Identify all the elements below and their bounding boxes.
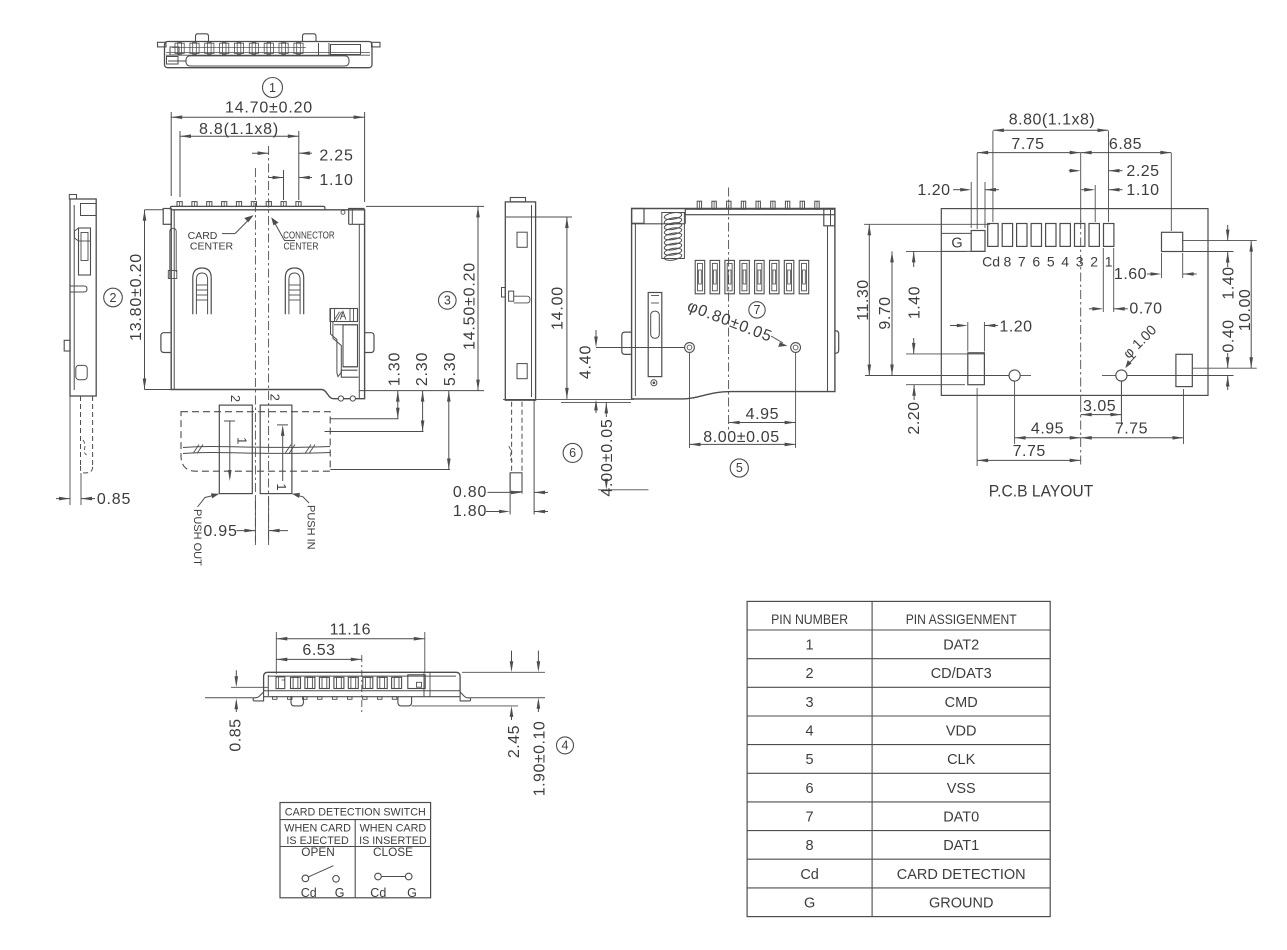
bottom view base line right xyxy=(471,697,546,699)
dim 2.45 xyxy=(511,651,513,669)
bottom view inner right block xyxy=(408,675,425,689)
svg-text:3: 3 xyxy=(444,294,451,308)
dim 3.05 xyxy=(1120,381,1122,421)
dim 2.45 ext xyxy=(412,705,518,707)
svg-text:Cd: Cd xyxy=(370,886,386,900)
dim 8.00 ext line xyxy=(689,353,691,449)
dim 1.10 ext line (pcb) xyxy=(1094,185,1096,222)
dim 1.10 (pcb) xyxy=(1081,189,1092,191)
dim 0.85 (bottom view) xyxy=(231,686,268,688)
svg-text:0.85: 0.85 xyxy=(228,718,245,751)
dim 11.30 xyxy=(868,224,870,375)
front view body outline xyxy=(171,210,364,399)
dim 1.20 lower-left ext lines xyxy=(967,322,969,352)
side view 2 mid hook xyxy=(70,286,87,292)
svg-text:2.25: 2.25 xyxy=(1126,163,1159,180)
cd switch close symbol xyxy=(375,873,382,880)
dim 1.20 top-left ext lines xyxy=(970,182,972,228)
svg-text:6.53: 6.53 xyxy=(302,642,335,659)
dim 0.85 (side view 2) xyxy=(56,498,70,500)
svg-text:4: 4 xyxy=(806,724,814,740)
label CONNECTOR CENTER leader xyxy=(273,219,285,241)
dim 8.00 xyxy=(690,443,796,445)
cd switch table frame xyxy=(280,803,431,898)
dim 6.85 xyxy=(1081,152,1172,154)
view1 contact pins row xyxy=(175,43,184,53)
svg-text:0.85: 0.85 xyxy=(97,491,131,508)
view5 top strip xyxy=(685,209,835,215)
svg-text:6.85: 6.85 xyxy=(1109,136,1142,153)
pcb upper right pad xyxy=(1162,232,1183,251)
dim 7.75 right xyxy=(1081,437,1184,439)
dim 8.80 xyxy=(993,129,1109,131)
dim 7.75 bottom ext xyxy=(976,388,978,466)
svg-text:PUSH OUT: PUSH OUT xyxy=(191,509,203,566)
dim 1.80 (view6) xyxy=(486,511,507,513)
pcb hole left xyxy=(1009,370,1020,381)
dim 6.53 xyxy=(276,658,362,660)
svg-text:CD/DAT3: CD/DAT3 xyxy=(931,666,992,682)
svg-text:8: 8 xyxy=(1004,254,1012,270)
front view right inner wall xyxy=(358,224,360,398)
svg-text:PUSH IN: PUSH IN xyxy=(305,505,317,550)
dim 1.10 xyxy=(269,177,284,179)
bottom view base line left xyxy=(205,697,253,699)
ext line bottoms of views 5/6 xyxy=(503,398,634,400)
dim 4.95 (pcb) xyxy=(1015,437,1081,439)
dim 5.30 xyxy=(448,391,450,470)
svg-text:GROUND: GROUND xyxy=(929,895,993,911)
dim 8.80 ext lines xyxy=(992,131,994,222)
dim 4.00 xyxy=(605,402,607,417)
dim 1.20 lower-left xyxy=(950,325,965,327)
ext line body bottom reference xyxy=(359,390,484,392)
svg-text:1.40: 1.40 xyxy=(906,286,923,319)
bottom view body outline xyxy=(264,672,461,692)
bottom view inner lines xyxy=(267,675,269,696)
svg-text:1.20: 1.20 xyxy=(917,182,950,199)
pcb outline xyxy=(941,209,1208,396)
pcb hole right xyxy=(1116,370,1127,381)
svg-text:4: 4 xyxy=(562,739,569,753)
dim 0.85 ext lines (side view 2) xyxy=(69,396,71,505)
svg-text:3: 3 xyxy=(806,695,814,711)
svg-text:2.45: 2.45 xyxy=(506,725,523,758)
front view left ear xyxy=(161,333,171,353)
center ext line (pcb top) xyxy=(1080,153,1082,222)
svg-text:1: 1 xyxy=(806,638,814,654)
svg-text:CENTER: CENTER xyxy=(284,240,319,252)
dim 7.75 top xyxy=(977,152,1080,154)
bottom view top ext right xyxy=(462,671,545,673)
dim 14.70 xyxy=(171,116,364,118)
pin table frame xyxy=(747,601,1050,916)
svg-text:5.30: 5.30 xyxy=(442,352,459,386)
front view left latch detail xyxy=(170,228,176,278)
svg-text:VDD: VDD xyxy=(946,724,977,740)
dim 0.40 xyxy=(1226,357,1230,368)
view1 inner bottom cavity xyxy=(186,56,349,66)
svg-text:7: 7 xyxy=(806,809,814,825)
svg-text:1.80: 1.80 xyxy=(453,503,487,520)
dim 0.95 xyxy=(237,530,256,532)
svg-text:5: 5 xyxy=(806,752,814,768)
dim 7.75 ext line xyxy=(976,153,978,229)
ref line 1.30 xyxy=(330,418,398,420)
bottom view feet ticks xyxy=(273,697,278,700)
view5 contact slots xyxy=(695,260,705,293)
dim 14.50 xyxy=(477,206,479,390)
pcb lower right pad xyxy=(1176,354,1192,386)
dim 0.40 ext lines xyxy=(1192,367,1256,369)
svg-text:DAT1: DAT1 xyxy=(943,838,979,854)
dim 1.40 left xyxy=(906,250,966,252)
svg-text:0.40: 0.40 xyxy=(1221,319,1238,352)
view5 top-left bracket xyxy=(632,209,644,224)
front view left inner wall xyxy=(173,210,175,390)
front view right ear xyxy=(365,333,374,353)
svg-text:6: 6 xyxy=(806,781,814,797)
front view clip right xyxy=(285,268,303,314)
front view eject lever mechanism xyxy=(330,309,358,322)
side view 6 push rod xyxy=(511,402,513,471)
svg-text:1.10: 1.10 xyxy=(1126,182,1159,199)
view5 hole center line xyxy=(596,347,685,349)
side view 6 lower slot xyxy=(517,364,527,379)
dim 10.00 xyxy=(1250,241,1252,369)
view1 top bump left xyxy=(196,34,209,42)
balloon 7 xyxy=(749,302,765,318)
dim 2.25 xyxy=(252,152,269,154)
bottom view center line xyxy=(361,655,363,715)
svg-text:G: G xyxy=(804,895,815,911)
svg-text:DAT0: DAT0 xyxy=(943,809,979,825)
card center line xyxy=(254,168,256,542)
view5 spring coil xyxy=(664,211,682,220)
ref line 5.30 xyxy=(330,469,450,471)
front view top strip xyxy=(170,206,325,209)
dim 1.40 right ext lines xyxy=(1183,240,1257,242)
bottom view foot tab right xyxy=(398,697,412,706)
svg-text:2.25: 2.25 xyxy=(319,148,353,165)
view5 rivet xyxy=(651,380,657,386)
svg-text:1: 1 xyxy=(1105,254,1113,270)
pcb contact pads xyxy=(988,224,998,247)
svg-text:4.95: 4.95 xyxy=(746,406,780,423)
push rod in xyxy=(260,405,292,494)
bottom view Cd contact xyxy=(276,677,285,689)
svg-text:5: 5 xyxy=(736,461,743,475)
svg-text:Cd: Cd xyxy=(800,867,819,883)
svg-text:9.70: 9.70 xyxy=(877,296,894,329)
rod in stroke arrow xyxy=(277,424,288,426)
phi 1.00 leader xyxy=(1129,356,1137,364)
svg-text:4.00±0.05: 4.00±0.05 xyxy=(599,418,616,496)
svg-text:1.20: 1.20 xyxy=(999,319,1032,336)
svg-text:VSS: VSS xyxy=(947,781,976,797)
svg-text:8: 8 xyxy=(806,838,814,854)
side view 6 upper slot xyxy=(517,232,527,247)
svg-text:4.95: 4.95 xyxy=(1031,421,1064,438)
push rod out xyxy=(219,405,252,494)
view5 top pins xyxy=(697,201,701,209)
dim 13.80 xyxy=(144,210,146,390)
svg-text:7.75: 7.75 xyxy=(1013,443,1046,460)
svg-text:G: G xyxy=(951,236,962,252)
svg-text:11.16: 11.16 xyxy=(330,622,371,639)
front view bottom-right rivets xyxy=(338,396,343,401)
dim 13.80 ext lines xyxy=(145,209,164,211)
bottom view left foot xyxy=(253,692,263,701)
svg-text:DAT2: DAT2 xyxy=(943,638,979,654)
svg-text:14.70±0.20: 14.70±0.20 xyxy=(225,100,313,117)
view5 center line dashed xyxy=(728,188,730,431)
svg-text:4.40: 4.40 xyxy=(578,345,595,379)
cd switch open symbol xyxy=(302,875,309,882)
dim 14.00 ext top xyxy=(505,216,572,218)
svg-text:2: 2 xyxy=(228,395,243,402)
svg-text:14.50±0.20: 14.50±0.20 xyxy=(462,262,479,350)
front view clip left xyxy=(193,268,211,314)
dim 1.40 right xyxy=(1226,230,1230,241)
side view 2 upper details xyxy=(81,204,97,216)
svg-text:CARD DETECTION SWITCH: CARD DETECTION SWITCH xyxy=(285,807,426,819)
dim 6.85 ext line xyxy=(1170,153,1172,231)
view1 top view body outline xyxy=(165,42,373,68)
svg-text:10.00: 10.00 xyxy=(1237,289,1254,332)
dim 4.95 xyxy=(729,422,796,424)
push in leader xyxy=(295,495,309,503)
dim 2.25 (pcb) xyxy=(1069,170,1078,172)
svg-text:11.30: 11.30 xyxy=(855,279,872,320)
svg-text:8.80(1.1x8): 8.80(1.1x8) xyxy=(1009,112,1095,129)
dim 0.70 xyxy=(1089,308,1100,310)
view1 right inner block xyxy=(318,43,320,55)
front view top edge pinhole xyxy=(341,210,345,214)
svg-text:6: 6 xyxy=(569,446,576,460)
svg-text:3.05: 3.05 xyxy=(1083,398,1116,415)
dim 7.75 right ext xyxy=(1183,389,1185,444)
balloon 1 xyxy=(263,78,283,98)
dim 11.16 xyxy=(276,638,425,640)
svg-text:6: 6 xyxy=(1032,254,1040,270)
svg-text:G: G xyxy=(335,886,345,900)
phi 0.80 leader xyxy=(771,336,783,343)
svg-text:CENTER: CENTER xyxy=(190,240,234,252)
side view 2 top nub xyxy=(69,195,76,200)
view5 hole right xyxy=(791,343,801,353)
dim 11.16 ext lines xyxy=(275,632,277,674)
dim 8.8 ext lines xyxy=(179,131,181,197)
svg-text:Cd: Cd xyxy=(301,886,317,900)
svg-text:1: 1 xyxy=(274,483,289,490)
pcb G trace lines xyxy=(941,232,971,234)
svg-text:1.90±0.10: 1.90±0.10 xyxy=(532,721,549,797)
dim 1.90 xyxy=(537,651,539,669)
svg-text:1.60: 1.60 xyxy=(1114,266,1147,283)
dim 0.80 (view6) xyxy=(488,491,520,493)
dim 4.95 (pcb) ext xyxy=(1080,403,1082,466)
side view 2 left nub xyxy=(64,340,70,351)
svg-text:1: 1 xyxy=(234,437,249,444)
dim 7.75 bottom xyxy=(977,459,1081,461)
bottom view right foot xyxy=(460,692,470,701)
svg-text:2.20: 2.20 xyxy=(906,401,923,434)
view5 top-right bracket xyxy=(824,209,835,226)
svg-text:8.8(1.1x8): 8.8(1.1x8) xyxy=(199,121,279,138)
dim 2.20 xyxy=(906,384,965,386)
view1 left inner details xyxy=(167,57,179,65)
svg-text:0.80: 0.80 xyxy=(453,484,487,501)
dim 9.70 xyxy=(891,251,893,375)
balloon 6 xyxy=(563,443,582,462)
ref line 2.30 xyxy=(325,431,424,433)
side view 6 left nub xyxy=(502,288,506,298)
svg-text:2.30: 2.30 xyxy=(414,352,431,386)
svg-text:3: 3 xyxy=(1076,254,1084,270)
dim 4.40 xyxy=(595,330,597,344)
svg-text:G: G xyxy=(407,886,417,900)
svg-text:CMD: CMD xyxy=(945,695,978,711)
dim 1.20 top-left xyxy=(953,189,968,191)
svg-text:P.C.B LAYOUT: P.C.B LAYOUT xyxy=(989,482,1094,501)
front view top-right bracket xyxy=(349,209,365,225)
svg-text:7.75: 7.75 xyxy=(1115,421,1148,438)
view5 slider xyxy=(648,293,662,377)
view5 hole left xyxy=(685,343,695,353)
svg-text:2: 2 xyxy=(267,394,282,401)
dim 14.00 xyxy=(566,217,568,399)
svg-text:1.10: 1.10 xyxy=(319,172,353,189)
svg-text:1.40: 1.40 xyxy=(1221,266,1238,299)
card break lines xyxy=(183,447,330,448)
dim 1.60 ext lines xyxy=(1161,253,1163,278)
svg-text:0.70: 0.70 xyxy=(1129,301,1162,318)
svg-text:OPEN: OPEN xyxy=(301,845,334,859)
dim 1.10 ext line xyxy=(283,170,285,200)
pcb lower left pad xyxy=(968,353,985,385)
svg-text:13.80±0.20: 13.80±0.20 xyxy=(128,253,145,341)
push out leader xyxy=(198,495,217,507)
side view 2 outline xyxy=(70,199,96,396)
pcb hole right center line xyxy=(1102,375,1116,377)
svg-text:2: 2 xyxy=(110,291,117,305)
svg-text:7: 7 xyxy=(1018,254,1026,270)
view5 left inner wall xyxy=(634,223,636,396)
dim 14.50 ext top xyxy=(366,205,484,207)
svg-text:Cd: Cd xyxy=(982,254,1000,270)
card outline dashed xyxy=(181,412,330,472)
svg-text:7: 7 xyxy=(754,303,761,317)
dim 4.00 ext lines xyxy=(561,401,631,403)
svg-text:PIN NUMBER: PIN NUMBER xyxy=(771,611,848,627)
side view 2 push rod dashed xyxy=(80,396,82,466)
svg-text:CLOSE: CLOSE xyxy=(373,845,413,859)
pcb hole left center line xyxy=(865,375,1009,377)
view5 body outline xyxy=(632,209,835,399)
dim 2.30 xyxy=(422,391,424,432)
svg-text:1: 1 xyxy=(269,81,276,95)
dim 4.95 ext lines xyxy=(795,353,797,449)
dim 1.60 xyxy=(1147,273,1159,275)
balloon 4 xyxy=(557,737,574,754)
dim 8.8 xyxy=(180,135,299,137)
view1 right flange xyxy=(372,42,381,47)
view1 inner band lines xyxy=(166,52,370,54)
view1 left flange xyxy=(158,42,167,47)
front view top-left bracket xyxy=(163,209,171,225)
svg-text:2: 2 xyxy=(806,666,814,682)
connector center line xyxy=(268,146,270,542)
svg-text:2: 2 xyxy=(1090,254,1098,270)
view5 right tab xyxy=(835,331,839,353)
front view top pins xyxy=(177,202,182,207)
svg-text:1.30: 1.30 xyxy=(386,352,403,386)
dim 14.70 ext lines xyxy=(170,112,172,196)
svg-text:14.00: 14.00 xyxy=(550,286,567,330)
svg-text:7.75: 7.75 xyxy=(1011,136,1044,153)
side view 2 lower slot xyxy=(76,365,87,379)
side view 6 outline xyxy=(505,202,535,400)
balloon 2 xyxy=(104,288,123,307)
bottom view contact pins xyxy=(291,677,301,688)
svg-text:CLK: CLK xyxy=(947,752,976,768)
svg-text:WHEN CARD: WHEN CARD xyxy=(360,822,427,834)
svg-text:0.95: 0.95 xyxy=(203,523,237,540)
balloon 3 xyxy=(439,292,457,310)
dim 0.70 ext lines xyxy=(1102,248,1104,312)
svg-text:PIN ASSIGENMENT: PIN ASSIGENMENT xyxy=(906,611,1017,627)
rod out stroke arrow xyxy=(224,420,235,422)
svg-text:CARD DETECTION: CARD DETECTION xyxy=(897,867,1026,883)
view5 right inner wall xyxy=(827,226,829,392)
svg-text:4: 4 xyxy=(1061,254,1069,270)
side view 6 mid details xyxy=(509,291,514,301)
label CARD CENTER leader xyxy=(222,233,235,235)
view1 top bump right xyxy=(303,34,317,42)
dim 1.30 xyxy=(397,391,399,419)
dim 0.95 ext lines xyxy=(254,497,256,545)
side view 6 top tab xyxy=(510,198,525,202)
bottom view foot tab left xyxy=(291,697,303,706)
view5 left ear xyxy=(622,332,632,354)
svg-text:5: 5 xyxy=(1047,254,1055,270)
balloon 5 xyxy=(730,459,748,477)
pcb center line dashed xyxy=(1080,220,1082,403)
pcb G pad xyxy=(971,231,985,252)
svg-text:WHEN CARD: WHEN CARD xyxy=(284,822,351,834)
svg-text:8.00±0.05: 8.00±0.05 xyxy=(703,429,779,446)
